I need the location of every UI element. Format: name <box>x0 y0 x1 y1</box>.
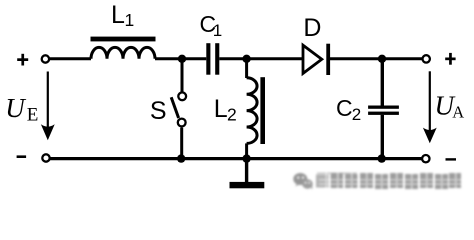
wire bottom rail: input terminal to switch node <box>50 157 181 160</box>
svg-text:A: A <box>452 103 464 122</box>
label - (output) <box>446 158 457 160</box>
svg-text:E: E <box>27 104 39 125</box>
junction J2 (L2 / ground / bottom rail) <box>242 154 250 162</box>
watermark text <box>316 172 462 189</box>
wire top rail: node A to C1 <box>182 57 206 60</box>
terminal input plus <box>42 55 49 62</box>
junction J1 (S / bottom rail) <box>177 154 185 162</box>
node B (junction C1 / L2 / D) <box>242 55 250 63</box>
wire top rail: L1 to node A <box>155 57 182 60</box>
label + (output) <box>445 53 455 65</box>
junction J3 (C2 / bottom rail) <box>378 154 386 162</box>
wire bottom rail: switch node to ground node <box>181 157 246 160</box>
capacitor C1 <box>206 43 219 74</box>
inductor L1 <box>91 37 156 59</box>
node A (junction L1 / S / C1) <box>178 55 186 63</box>
wire top rail: input terminal to L1 <box>49 57 91 60</box>
watermark <box>293 173 313 189</box>
label UE <box>5 93 38 125</box>
label L1 <box>111 1 134 30</box>
wire bottom rail: C2 node to output terminal <box>382 157 422 160</box>
node C (junction D / C2 / output) <box>378 55 386 63</box>
label C2 <box>336 95 361 124</box>
label - (input) <box>17 155 27 158</box>
svg-text:2: 2 <box>227 105 237 125</box>
wire top rail: node B to diode D <box>247 57 303 60</box>
terminal output minus <box>422 155 429 162</box>
voltage arrow UA <box>423 71 437 143</box>
capacitor C2 <box>368 59 399 159</box>
svg-text:D: D <box>303 14 321 42</box>
svg-text:L: L <box>111 1 125 29</box>
label L2 <box>214 95 237 125</box>
switch S <box>171 59 186 159</box>
terminal output plus <box>423 55 430 62</box>
svg-text:1: 1 <box>125 10 135 30</box>
ground <box>230 159 265 189</box>
label C1 <box>200 11 223 40</box>
svg-text:1: 1 <box>213 21 222 40</box>
wire top rail: diode to output terminal <box>330 57 422 60</box>
svg-text:2: 2 <box>352 105 361 124</box>
terminal input minus <box>42 154 49 161</box>
wire bottom rail: ground node to C2 node <box>247 157 382 160</box>
diode D <box>303 44 330 75</box>
svg-text:U: U <box>5 93 26 123</box>
svg-text:C: C <box>336 95 353 121</box>
voltage arrow UE <box>41 72 55 141</box>
label UA <box>435 91 465 122</box>
label + (input) <box>17 54 28 66</box>
svg-text:S: S <box>150 97 167 125</box>
inductor L2 <box>247 59 265 159</box>
svg-text:L: L <box>214 95 228 123</box>
wire top rail: C1 to node B <box>219 57 246 60</box>
